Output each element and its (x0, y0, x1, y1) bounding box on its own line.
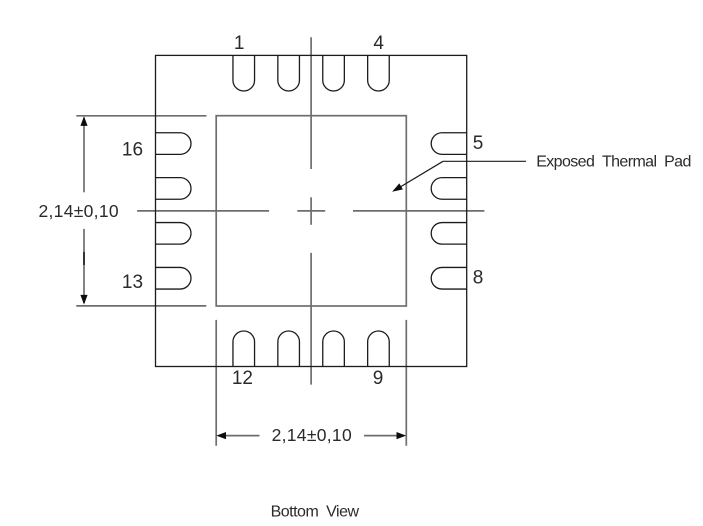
svg-text:13: 13 (122, 272, 143, 293)
svg-text:5: 5 (473, 133, 484, 154)
svg-text:1: 1 (234, 33, 245, 54)
svg-text:2,14±0,10: 2,14±0,10 (38, 201, 118, 221)
svg-text:4: 4 (373, 33, 384, 54)
svg-text:8: 8 (473, 268, 484, 289)
svg-text:12: 12 (232, 368, 253, 389)
svg-text:9: 9 (373, 368, 384, 389)
svg-text:2,14±0,10: 2,14±0,10 (272, 425, 352, 445)
svg-text:Bottom View: Bottom View (271, 503, 360, 520)
svg-text:Exposed Thermal Pad: Exposed Thermal Pad (536, 154, 691, 171)
svg-text:16: 16 (122, 140, 143, 161)
